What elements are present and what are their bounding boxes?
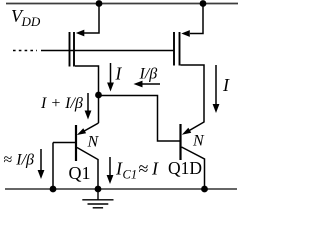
- svg-text:I: I: [115, 64, 123, 84]
- svg-text:N: N: [192, 133, 205, 150]
- svg-text:I: I: [151, 159, 159, 179]
- svg-text:I + I/β: I + I/β: [40, 95, 83, 112]
- svg-text:I: I: [222, 75, 230, 95]
- svg-text:Q1: Q1: [69, 163, 91, 183]
- svg-text:≈ I/β: ≈ I/β: [4, 152, 35, 169]
- svg-text:DD: DD: [21, 14, 41, 29]
- svg-text:Q1D: Q1D: [168, 158, 202, 178]
- svg-text:≈: ≈: [139, 159, 149, 179]
- svg-text:I/β: I/β: [139, 66, 158, 83]
- svg-text:C1: C1: [123, 168, 138, 182]
- svg-text:N: N: [87, 134, 100, 151]
